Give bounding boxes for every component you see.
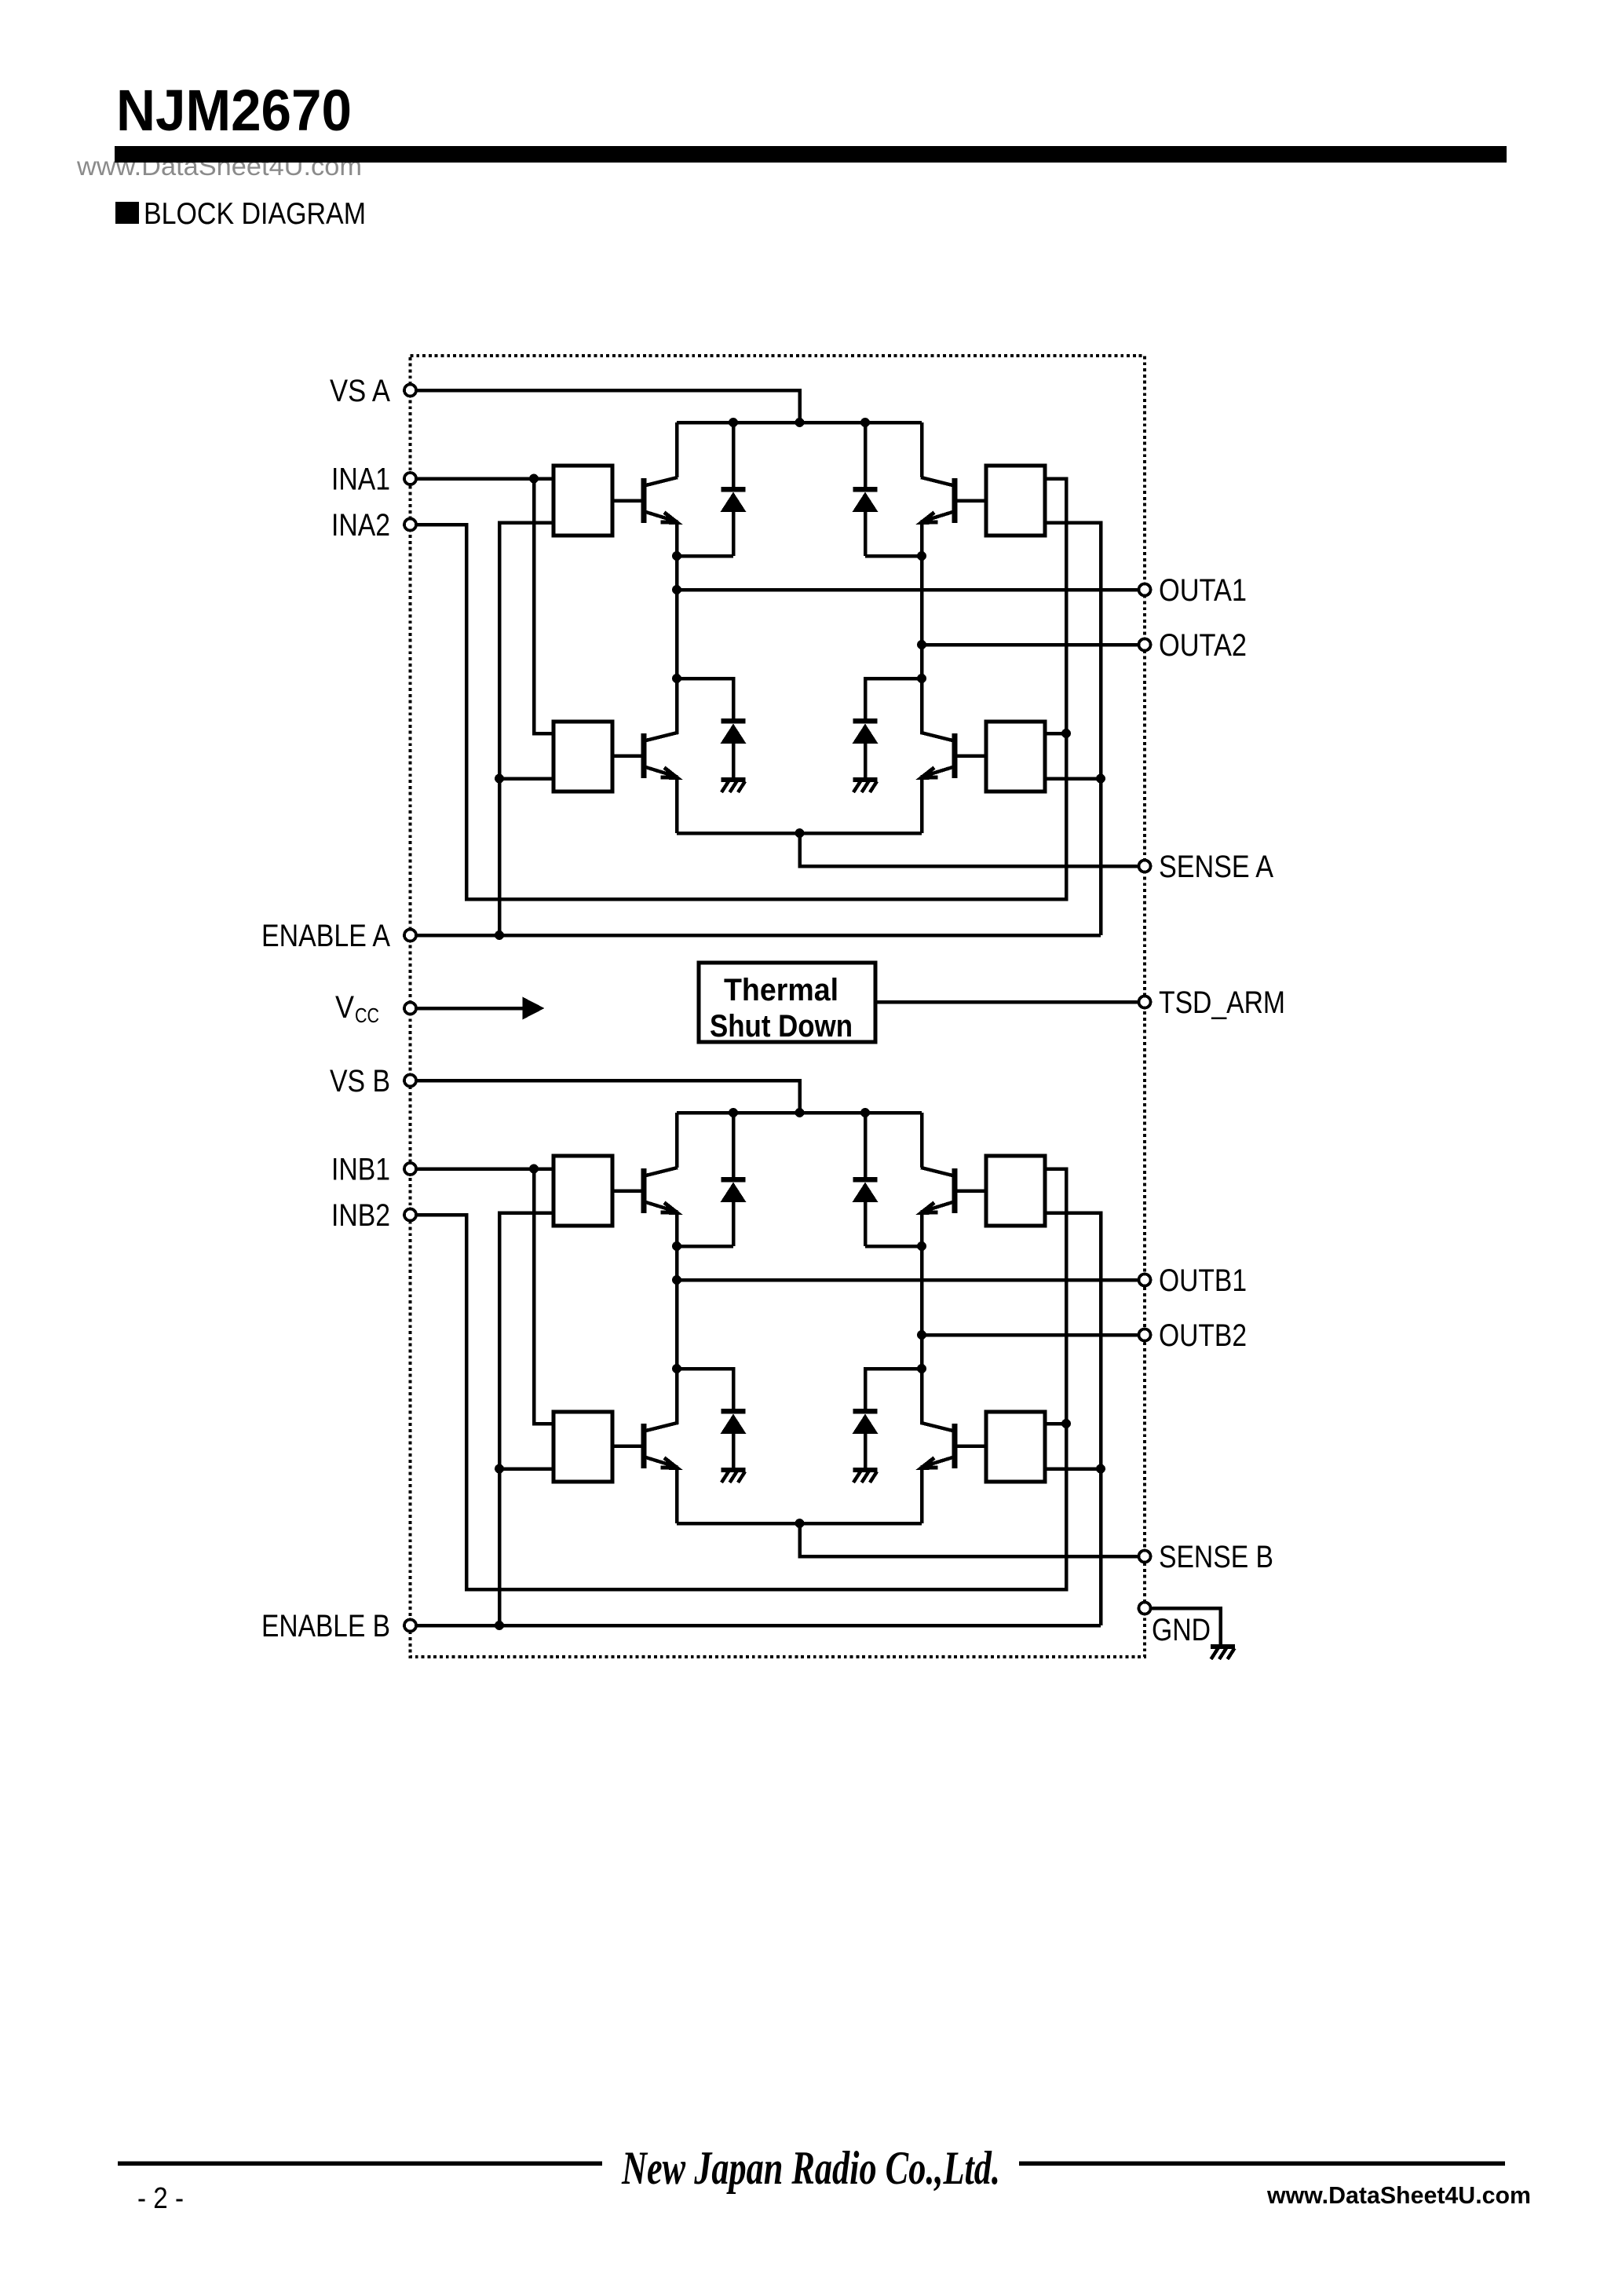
junction INB2 branch to driver U8: [1061, 1419, 1071, 1428]
section marker square: [115, 202, 139, 224]
wire VCC arrow feed: [417, 1007, 524, 1011]
svg-text:OUTB2: OUTB2: [1159, 1318, 1247, 1353]
svg-text:SENSE B: SENSE B: [1159, 1540, 1273, 1574]
diode D1 (cathode bar top, anode bottom): [721, 422, 747, 556]
wire INA1 to driver U1: [411, 477, 554, 481]
svg-text:VS A: VS A: [330, 374, 390, 408]
junction INB1 branch: [529, 1164, 539, 1174]
svg-text:Thermal: Thermal: [724, 973, 838, 1007]
ground symbol under D6: [721, 1468, 746, 1483]
wire ENABLE A bus: [411, 934, 1101, 938]
junction OUTB1 node: [672, 1275, 681, 1285]
junction top rail A x diode D1: [729, 418, 738, 427]
header rule bar: [115, 146, 1507, 163]
wire collector Q3 to rail: [920, 422, 924, 477]
junction OUTB2 node: [917, 1330, 926, 1340]
junction INA2 branch to driver U4: [1061, 729, 1071, 738]
wire ENABLE B right vertical to drivers U7/U8: [1045, 1213, 1101, 1626]
wire collector Q7 to rail: [920, 1113, 924, 1168]
terminal SENSE B: [1139, 1551, 1151, 1563]
wire clamp branch node OUTB2 to diode D8: [865, 1369, 922, 1409]
wire clamp branch node OUTA1 to diode D2: [677, 678, 733, 718]
terminal OUTB2: [1139, 1329, 1151, 1341]
wire OUTB2 line to terminal: [922, 1333, 1145, 1337]
wire INA1 branch to driver U2: [534, 479, 553, 734]
block U9 Thermal Shut Down: [699, 963, 875, 1044]
wire ENABLE B bus: [411, 1624, 1101, 1628]
wire INB2 to right drivers U7/U8: [411, 1169, 1067, 1590]
wire emitter Q4 to bottom rail: [920, 777, 924, 834]
transistor Q3 (high-side right A, NPN): [921, 477, 986, 523]
wire ENABLE A branch to driver U2: [499, 777, 553, 781]
wire OUTA1 line to terminal: [677, 588, 1145, 592]
svg-text:INB1: INB1: [331, 1153, 390, 1187]
wire GND terminal to ground: [1145, 1608, 1221, 1644]
transistor Q1 (high-side left A, NPN): [612, 477, 678, 523]
wire OUTB1 line to terminal: [677, 1278, 1145, 1282]
wire emitter Q2 to bottom rail: [675, 777, 679, 834]
diode D2 (cathode bar top, anode to ground): [721, 678, 747, 777]
footer rule right segment: [1019, 2162, 1505, 2166]
wire clamp branch node OUTA2 to diode D4: [865, 678, 922, 718]
wire top rail A (VS A bus): [677, 421, 922, 425]
wire INB1 branch to driver U6: [534, 1169, 553, 1424]
diode D6 (cathode bar top, anode to ground): [721, 1369, 747, 1468]
svg-text:INB2: INB2: [331, 1198, 390, 1233]
junction clamp branch OUTB1: [672, 1364, 681, 1373]
driver block U1 (predriver Q1): [553, 466, 612, 536]
driver block U8 (predriver Q8): [986, 1412, 1045, 1482]
svg-text:OUTA1: OUTA1: [1159, 573, 1247, 608]
junction ENABLE B to driver U6: [495, 1464, 504, 1474]
wire node OUTA2 to diode D3 anode: [865, 554, 922, 558]
terminal INB2: [404, 1209, 416, 1221]
wire INB2 branch to driver U8: [1045, 1422, 1066, 1426]
junction ENABLE B left branch: [495, 1621, 504, 1630]
diode D8 (cathode bar top, anode to ground): [853, 1369, 879, 1468]
junction clamp branch OUTB2: [917, 1364, 926, 1373]
wire ENABLE B branch to driver U6: [499, 1467, 553, 1471]
driver block U4 (predriver Q4): [986, 722, 1045, 792]
wire TSD_ARM output: [875, 1000, 1145, 1004]
junction node OUTA2 emitter/diode: [917, 551, 926, 561]
wire emitter Q3 down to node OUTA2: [920, 522, 924, 557]
junction top rail A x VS feed: [795, 418, 805, 427]
svg-text:GND: GND: [1152, 1613, 1211, 1647]
junction top rail B x VS feed: [795, 1108, 805, 1117]
ground symbol under D2: [721, 777, 746, 792]
junction node OUTB1 emitter/diode: [672, 1241, 681, 1251]
junction top rail B x diode D7: [860, 1108, 870, 1117]
wire emitter Q6 to bottom rail: [675, 1468, 679, 1524]
arrowhead VCC: [523, 997, 545, 1020]
terminal SENSE A: [1139, 861, 1151, 872]
wire collector Q5 to rail: [675, 1113, 679, 1168]
wire node OUTA1 vertical (emitter Q1 to collector Q2): [675, 556, 679, 734]
ground symbol under D4: [853, 777, 878, 792]
svg-text:ENABLE B: ENABLE B: [261, 1609, 390, 1643]
wire node OUTB1 to diode D5 anode: [677, 1245, 733, 1249]
driver block U3 (predriver Q3): [986, 466, 1045, 536]
driver block U6 (predriver Q6): [553, 1412, 612, 1482]
terminal TSD_ARM: [1139, 996, 1151, 1008]
wire SENSE A to terminal: [800, 833, 1145, 866]
svg-text:NJM2670: NJM2670: [116, 78, 352, 143]
wire node OUTB2 vertical (emitter Q7 to collector Q8): [920, 1246, 924, 1424]
terminal ENABLE B: [404, 1620, 416, 1632]
svg-text:New Japan Radio Co.,Ltd.: New Japan Radio Co.,Ltd.: [621, 2142, 1000, 2194]
wire VS A to top rail: [411, 390, 800, 422]
wire node OUTB2 to diode D7 anode: [865, 1245, 922, 1249]
wire INA2 to right drivers U3/U4: [411, 479, 1067, 900]
transistor Q8 (low-side right B, NPN): [921, 1423, 986, 1468]
junction top rail B x diode D5: [729, 1108, 738, 1117]
wire ENABLE B branch to driver U8: [1045, 1467, 1101, 1471]
junction ENABLE A to driver U2: [495, 774, 504, 784]
wire clamp branch node OUTB1 to diode D6: [677, 1369, 733, 1409]
junction top rail A x diode D3: [860, 418, 870, 427]
terminal INA1: [404, 473, 416, 484]
driver block U5 (predriver Q5): [553, 1156, 612, 1226]
svg-text:VS B: VS B: [330, 1064, 390, 1099]
svg-text:INA1: INA1: [331, 462, 390, 497]
svg-text:TSD_ARM: TSD_ARM: [1159, 985, 1285, 1020]
wire bottom rail B (sense bus): [677, 1522, 922, 1526]
terminal OUTA2: [1139, 639, 1151, 651]
svg-text:- 2 -: - 2 -: [137, 2182, 184, 2215]
driver block U2 (predriver Q2): [553, 722, 612, 792]
wire node OUTB1 vertical (emitter Q5 to collector Q6): [675, 1246, 679, 1424]
junction ENABLE A to driver U4: [1096, 774, 1105, 784]
transistor Q2 (low-side left A, NPN): [612, 733, 678, 778]
svg-text:CC: CC: [355, 1004, 379, 1027]
wire INB1 to driver U5: [411, 1167, 554, 1171]
junction bottom rail B x sense tap: [795, 1519, 805, 1528]
wire emitter Q7 down to node OUTB2: [920, 1212, 924, 1247]
junction OUTA1 node: [672, 585, 681, 594]
svg-text:V: V: [335, 990, 354, 1025]
junction ENABLE A left branch: [495, 930, 504, 940]
junction clamp branch OUTA1: [672, 674, 681, 683]
transistor Q7 (high-side right B, NPN): [921, 1168, 986, 1213]
svg-text:BLOCK DIAGRAM: BLOCK DIAGRAM: [144, 197, 366, 231]
wire ENABLE A left vertical to drivers U1/U2: [499, 523, 553, 936]
svg-text:www.DataSheet4U.com: www.DataSheet4U.com: [1266, 2181, 1531, 2209]
terminal GND: [1139, 1603, 1151, 1614]
footer rule left segment: [118, 2162, 602, 2166]
wire emitter Q5 down to node OUTB1: [675, 1212, 679, 1247]
junction clamp branch OUTA2: [917, 674, 926, 683]
ground symbol GND pin: [1211, 1644, 1235, 1659]
terminal INA2: [404, 519, 416, 531]
wire top rail B (VS B bus): [677, 1111, 922, 1115]
svg-text:SENSE A: SENSE A: [1159, 850, 1273, 884]
junction INA1 branch: [529, 474, 539, 484]
junction ENABLE B to driver U8: [1096, 1464, 1105, 1474]
terminal ENABLE A: [404, 930, 416, 941]
diode D3 (cathode bar top, anode bottom): [853, 422, 879, 556]
terminal VS B: [404, 1075, 416, 1087]
terminal OUTB1: [1139, 1274, 1151, 1286]
wire VS B to top rail: [411, 1080, 800, 1113]
svg-text:OUTB1: OUTB1: [1159, 1263, 1247, 1298]
svg-text:INA2: INA2: [331, 508, 390, 543]
transistor Q6 (low-side left B, NPN): [612, 1423, 678, 1468]
ground symbol under D8: [853, 1468, 878, 1483]
wire OUTA2 line to terminal: [922, 643, 1145, 647]
transistor Q4 (low-side right A, NPN): [921, 733, 986, 778]
transistor Q5 (high-side left B, NPN): [612, 1168, 678, 1213]
diode D5 (cathode bar top, anode bottom): [721, 1113, 747, 1246]
terminal OUTA1: [1139, 584, 1151, 596]
junction node OUTB2 emitter/diode: [917, 1241, 926, 1251]
svg-text:ENABLE A: ENABLE A: [261, 919, 390, 953]
dotted IC boundary box: [411, 356, 1145, 1657]
wire SENSE B to terminal: [800, 1523, 1145, 1556]
terminal VCC: [404, 1003, 416, 1015]
terminal VS A: [404, 385, 416, 397]
diode D7 (cathode bar top, anode bottom): [853, 1113, 879, 1246]
junction bottom rail A x sense tap: [795, 828, 805, 838]
wire emitter Q8 to bottom rail: [920, 1468, 924, 1524]
terminal INB1: [404, 1163, 416, 1175]
wire ENABLE B left vertical to drivers U5/U6: [499, 1213, 553, 1626]
svg-text:OUTA2: OUTA2: [1159, 628, 1247, 663]
wire node OUTA2 vertical (emitter Q3 to collector Q4): [920, 556, 924, 734]
wire bottom rail A (sense bus): [677, 832, 922, 835]
junction node OUTA1 emitter/diode: [672, 551, 681, 561]
wire emitter Q1 down to node OUTA1: [675, 522, 679, 557]
wire node OUTA1 to diode D1 anode: [677, 554, 733, 558]
junction OUTA2 node: [917, 640, 926, 649]
wire collector Q1 to rail: [675, 422, 679, 477]
wire INA2 branch to driver U4: [1045, 732, 1066, 736]
driver block U7 (predriver Q7): [986, 1156, 1045, 1226]
wire ENABLE A branch to driver U4: [1045, 777, 1101, 781]
svg-text:Shut Down: Shut Down: [710, 1009, 853, 1044]
diode D4 (cathode bar top, anode to ground): [853, 678, 879, 777]
wire ENABLE A right vertical to drivers U3/U4: [1045, 523, 1101, 936]
